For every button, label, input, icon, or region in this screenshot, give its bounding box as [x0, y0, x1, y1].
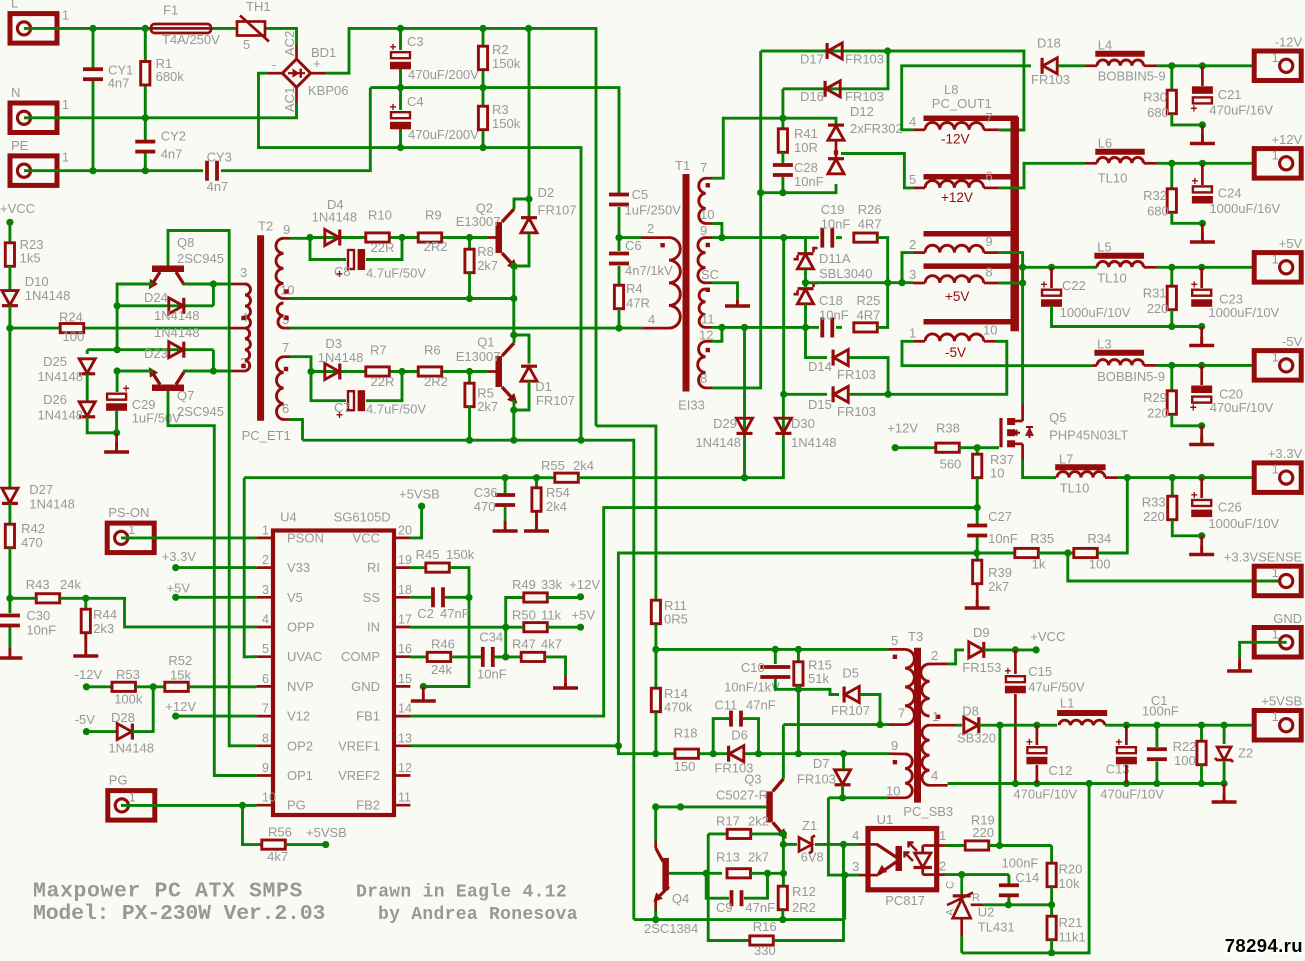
lead L3 e [1144, 364, 1157, 367]
label T1 pin 2 [647, 221, 654, 236]
svg-text:47uF/50V: 47uF/50V [1028, 680, 1085, 695]
junction C14 ref [1005, 901, 1012, 908]
wire N to AC1 [24, 103, 297, 118]
wire pin12 drop [712, 327, 722, 341]
label C4 value [408, 127, 479, 142]
label D18 value [1031, 72, 1070, 87]
svg-text:CY3: CY3 [207, 150, 232, 165]
label C5 [632, 187, 649, 202]
lead T3 pin10 [888, 796, 905, 799]
svg-text:2xFR302: 2xFR302 [850, 121, 903, 136]
svg-text:T2: T2 [258, 219, 273, 234]
label R55 [541, 458, 565, 473]
wire pin7 line [290, 357, 488, 372]
capacitor C13 [1115, 735, 1137, 764]
label TH1 [246, 0, 271, 14]
label C22 value [1060, 305, 1131, 320]
wire D25-D26 [86, 374, 89, 401]
svg-text:+5V: +5V [1279, 236, 1303, 251]
label L8 pin6 [985, 169, 992, 184]
resistor R31 [1167, 286, 1176, 310]
U4 pin 17 number [398, 613, 412, 627]
svg-text:1: 1 [1272, 710, 1279, 724]
label L6 [1098, 136, 1112, 151]
svg-text:C3: C3 [407, 34, 424, 49]
label +VCC [0, 201, 35, 216]
U4 pin 2 number [262, 553, 269, 567]
lead T2 pin4 [229, 327, 245, 330]
U4 pin 5 UVAC stub [257, 655, 273, 658]
label R43 value [60, 577, 81, 592]
U1 pin1 stub [937, 844, 945, 847]
svg-text:1: 1 [62, 8, 69, 22]
wire bottom rail [634, 918, 845, 921]
svg-text:2: 2 [909, 237, 916, 252]
svg-text:20: 20 [398, 523, 412, 537]
label D29 value [695, 435, 741, 450]
wire D7 top lead [842, 754, 845, 769]
wire R55 D30 [745, 394, 784, 477]
wire R50 west [506, 626, 524, 629]
wire C5 top [618, 88, 621, 192]
label Q5 type [1049, 428, 1128, 443]
svg-text:C30: C30 [26, 608, 50, 623]
svg-text:470uF/200V: 470uF/200V [408, 127, 479, 142]
label C20 [1219, 387, 1243, 402]
capacitor C28 [773, 163, 793, 177]
svg-text:COMP: COMP [341, 649, 380, 664]
connector L pin 1 [62, 8, 69, 22]
U4 pin 3 number [262, 583, 269, 597]
junction +5V C22 [1048, 264, 1055, 271]
thermistor TH1 [237, 16, 269, 42]
wire R5 bottom [468, 407, 471, 441]
svg-text:10nF/1kV: 10nF/1kV [724, 680, 780, 695]
resistor R38 [936, 443, 960, 452]
label L3 [1097, 337, 1111, 352]
svg-text:D7: D7 [813, 756, 830, 771]
connector N label [11, 85, 20, 100]
svg-text:10k: 10k [1059, 876, 1080, 891]
label D5 value [831, 703, 870, 718]
wire R32 bottom [1172, 213, 1203, 224]
wire R22 top lead [1200, 725, 1203, 741]
wire C18 line [806, 326, 820, 329]
svg-text:PG: PG [109, 773, 128, 788]
junction Q8 collector [210, 280, 217, 287]
label BD1 plus [313, 56, 321, 71]
capacitor C26 [1191, 488, 1213, 517]
label D30 [791, 416, 815, 431]
label L8 pin7 [985, 110, 992, 125]
wire C18-R25 [836, 326, 842, 329]
svg-text:1k: 1k [1032, 557, 1046, 572]
label L8 pin10 [983, 323, 997, 338]
inductor L4 [1097, 60, 1144, 66]
wire Q1 collector [513, 335, 516, 343]
wire C10 top lead [774, 649, 777, 664]
wire D23 line [87, 348, 213, 351]
junction R43 left [6, 595, 13, 602]
svg-text:24k: 24k [60, 577, 81, 592]
wire C7 right [366, 372, 402, 401]
lead C15 top [1014, 650, 1017, 674]
svg-text:FR103: FR103 [837, 367, 876, 382]
svg-text:R22: R22 [1173, 739, 1197, 754]
junction VREF1 riser [615, 742, 622, 749]
svg-text:SBL3040: SBL3040 [819, 266, 873, 281]
label C11 [714, 698, 737, 713]
svg-text:24k: 24k [431, 662, 452, 677]
svg-text:4: 4 [262, 613, 269, 627]
label R3 [492, 102, 509, 117]
svg-text:12: 12 [699, 328, 713, 343]
svg-text:A: A [945, 908, 957, 916]
node +12V R49 [577, 593, 584, 600]
lead L4 e [1144, 64, 1157, 67]
svg-text:R3: R3 [492, 102, 509, 117]
label Q4 [672, 891, 689, 906]
wire midpoint rail [290, 297, 514, 300]
svg-text:Model: PX-230W Ver.2.03: Model: PX-230W Ver.2.03 [33, 902, 325, 926]
wire fb bottom line [962, 784, 1089, 953]
diode D1 [521, 365, 537, 382]
connector L label [11, 0, 18, 11]
T2 polarity dot a [241, 316, 245, 320]
svg-text:1: 1 [62, 151, 69, 165]
svg-text:R56: R56 [268, 825, 292, 840]
wire pin3 T2 [213, 283, 232, 286]
label R56 value [267, 849, 288, 864]
label C26 [1218, 500, 1242, 515]
svg-text:14: 14 [398, 702, 412, 716]
wire to T3 pin9 [844, 752, 890, 755]
resistor R7 [366, 367, 390, 376]
transistor Q4 bar [662, 858, 669, 890]
transistor Q3 [766, 779, 790, 842]
junction C29 bottom [113, 429, 120, 436]
label R52 value [170, 668, 191, 683]
ground C23 [1189, 337, 1214, 346]
lead T1 pin11 [706, 326, 713, 329]
capacitor C19 [820, 228, 834, 248]
resistor R21 [1047, 916, 1056, 940]
svg-text:PC_OUT1: PC_OUT1 [932, 96, 992, 111]
wire R37 top [976, 448, 979, 454]
capacitor C10 [760, 665, 790, 679]
junction +5V pins23 [898, 279, 905, 286]
label R14 value [664, 700, 693, 715]
svg-text:C34: C34 [479, 630, 503, 645]
connector PG [108, 791, 155, 821]
wire D9 east [984, 648, 1036, 651]
label R38 value [940, 457, 962, 472]
wire R1 top [144, 28, 147, 61]
svg-text:1N4148: 1N4148 [154, 308, 200, 323]
label L8 [944, 82, 958, 97]
L8 bar w5 [924, 319, 1019, 325]
label R39 [988, 565, 1012, 580]
wire D27 to R42 [8, 503, 11, 524]
label Q1 type [456, 349, 501, 364]
capacitor C14 [999, 883, 1019, 897]
label C2 [417, 606, 434, 621]
label D2 value [538, 203, 577, 218]
wire +5V to V5 [176, 596, 257, 599]
label C10 value [724, 680, 780, 695]
junction rail R5 [466, 437, 473, 444]
label L3 type [1097, 369, 1165, 384]
resistor R50 [524, 623, 548, 632]
svg-text:10: 10 [886, 784, 900, 799]
wire jog 596 [596, 426, 656, 600]
junction D15 D14 [885, 391, 892, 398]
wire L8 pin6 out [999, 163, 1085, 188]
wire D10 to R24 line [8, 306, 11, 329]
wire SC [712, 283, 738, 300]
wire C5 bottom [618, 207, 621, 238]
connector GND pin 1 [1272, 627, 1279, 641]
junction +3.3 R34riser [1124, 474, 1131, 481]
wire C34 east [495, 655, 522, 658]
connector -12V pin 1 [1272, 51, 1279, 65]
inductor L3 bar [1094, 350, 1144, 356]
capacitor C15 [1004, 664, 1026, 693]
wire IN line [410, 626, 505, 629]
svg-text:C5027-R: C5027-R [716, 788, 768, 803]
wire pin2 T2 [213, 370, 232, 373]
svg-text:TL431: TL431 [978, 920, 1015, 935]
wire R52 to NVP [189, 685, 257, 688]
transformer T1 winding 9-SC [698, 238, 706, 283]
wire TH1 to AC2 [265, 28, 297, 45]
label T3 pin 4 [931, 768, 938, 783]
junction R17 Q3e [780, 830, 787, 837]
capacitor C9 [730, 890, 744, 906]
svg-text:R30: R30 [1143, 90, 1167, 105]
svg-text:+: + [1190, 101, 1197, 115]
svg-text:7: 7 [985, 110, 992, 125]
wire IN-C34 riser [504, 627, 507, 657]
label L1 [1060, 696, 1074, 711]
label D30 value [791, 435, 837, 450]
svg-text:100: 100 [1174, 753, 1196, 768]
svg-text:+: + [1191, 488, 1198, 502]
junction C20 bottom [1198, 422, 1205, 429]
svg-text:4R7: 4R7 [857, 308, 881, 323]
resistor R30 [1167, 90, 1176, 114]
junction 0V C13 [1123, 780, 1130, 787]
wire C19 line b [784, 236, 819, 239]
U1 pin1 number [939, 828, 946, 843]
label -5V winding [945, 345, 966, 360]
svg-text:FR107: FR107 [538, 203, 577, 218]
label R18 [674, 726, 698, 741]
label R30 value [1147, 105, 1169, 120]
junction 0V fb [1086, 780, 1093, 787]
lead T2 pin6 [284, 418, 291, 421]
U4 pin name FB1 [356, 709, 380, 724]
wire Z1 east [815, 843, 859, 846]
wire 0V rail [948, 782, 1225, 785]
junction Q1 collector [510, 331, 517, 338]
wire D16 west [781, 89, 784, 118]
ground C24 [1190, 233, 1215, 242]
lead T3 pin7 [889, 723, 905, 726]
svg-text:R42: R42 [21, 521, 45, 536]
lead C15 bottom [1014, 694, 1017, 784]
lead T2 pin3 [232, 283, 246, 286]
svg-text:470uF/200V: 470uF/200V [408, 67, 479, 82]
label Q4 type [644, 921, 698, 936]
wire +5V line [806, 281, 914, 284]
diode D7 [835, 770, 851, 787]
connector PE label [11, 138, 29, 153]
label C4 [407, 94, 424, 109]
U4 pin name UVAC [287, 649, 322, 664]
label C13 value [1100, 787, 1164, 802]
resistor R1 [141, 62, 150, 86]
label C36 value [474, 499, 496, 514]
label T2 pin 9 [283, 222, 290, 237]
label R2 [492, 42, 509, 57]
U1 pin4 number [852, 828, 859, 843]
ground C36 [493, 521, 518, 531]
junction VREF1 R35 [973, 549, 980, 556]
label R39 value [988, 579, 1009, 594]
lead C13 bottom [1125, 765, 1128, 784]
wire R38 to R37 [959, 446, 977, 449]
resistor R13 [727, 869, 751, 878]
svg-text:+5VSB: +5VSB [1261, 694, 1302, 709]
label R45 value [446, 547, 475, 562]
wire R49 west [506, 598, 524, 628]
U4 pin 5 number [262, 642, 269, 656]
transformer T3 winding 1-4 [922, 725, 930, 785]
svg-text:VREF2: VREF2 [338, 768, 380, 783]
svg-text:R21: R21 [1059, 915, 1083, 930]
node +5VSB U4 [418, 503, 425, 510]
wire gate wire [977, 446, 999, 449]
label U2 type [978, 920, 1015, 935]
lead T1 pin7 [706, 177, 713, 180]
diode D10 [2, 291, 18, 308]
wire pin6 loop [290, 420, 303, 441]
label R31 [1143, 286, 1167, 301]
svg-text:-12V: -12V [1275, 34, 1303, 49]
junction R13 Q3e [780, 870, 787, 877]
U4 pin 1 number [262, 523, 269, 537]
junction pin11 D29riser [741, 324, 748, 331]
label PC_OUT1 [932, 96, 992, 111]
junction D17-D16 [884, 47, 891, 54]
node -5V [83, 728, 90, 735]
resistor R37 [973, 454, 982, 478]
label T2 pin 10 [280, 283, 294, 298]
lead L8 pin10 [984, 340, 996, 343]
svg-text:100nF: 100nF [1002, 855, 1039, 870]
wire Z2 bottom [1223, 762, 1226, 784]
label R26 value [858, 217, 882, 232]
lead L4 w [1085, 64, 1097, 67]
junction R13 west [703, 870, 710, 877]
wire D12 mid to pin5 [841, 154, 913, 188]
svg-text:D5: D5 [842, 666, 859, 681]
label T1 pin 4 [648, 312, 655, 327]
label Q5 [1049, 410, 1066, 425]
U4 pin 8 OP2 stub [257, 744, 273, 747]
label D8 value [957, 731, 996, 746]
wire R11 bottom [654, 624, 657, 649]
wire Q3 collector [782, 725, 785, 779]
connector GND label [1273, 611, 1302, 626]
IC U4 SG6105D box [273, 531, 394, 816]
label R17 value [748, 814, 769, 829]
label +5VSB R56 [306, 825, 347, 840]
label C14 value [1002, 855, 1039, 870]
lead R47 gnd [564, 676, 567, 687]
svg-text:4n7/1kV: 4n7/1kV [625, 263, 673, 278]
T2 polarity dot b [241, 364, 245, 368]
wire C10 bottom [775, 679, 798, 689]
label C20 value [1210, 400, 1274, 415]
svg-text:OP1: OP1 [287, 768, 313, 783]
connector +3.3VSENSE [1254, 566, 1301, 596]
label R54 [546, 485, 570, 500]
fuse F1 [151, 24, 211, 33]
label C23 value [1208, 305, 1279, 320]
T1 polarity dot SC [706, 288, 710, 292]
ground C20 [1189, 436, 1214, 445]
wire C30 bottom [8, 627, 11, 648]
wire R13 line [669, 872, 722, 875]
transistor Q1 [496, 343, 522, 407]
U4 pin name COMP [341, 649, 380, 664]
junction midpoint R8 [466, 295, 473, 302]
junction L8 pin8 [1019, 279, 1026, 286]
wire D26 bottom [87, 417, 116, 433]
lead T2 pin2 [232, 370, 246, 373]
svg-text:-: - [272, 57, 276, 72]
label D24 value [154, 308, 200, 323]
label C29 [132, 397, 156, 412]
junction pin5line R11 [652, 646, 659, 653]
label D12 [850, 104, 874, 119]
junction R44 top [82, 595, 89, 602]
wire pin7line to D12 [783, 118, 836, 124]
svg-text:PC_ET1: PC_ET1 [242, 428, 291, 443]
svg-text:11: 11 [701, 312, 715, 327]
wire pin10 drop T3 [828, 798, 859, 875]
svg-text:R41: R41 [794, 126, 818, 141]
junction R5 top [466, 368, 473, 375]
junction pin8 D12line [757, 189, 764, 196]
U4 pin 14 FB1 stub [394, 715, 410, 718]
wire R2 top [482, 28, 485, 46]
junction L-R1 [142, 25, 149, 32]
label D4 [327, 197, 344, 212]
label R13 [716, 850, 740, 865]
label -12V winding [941, 132, 970, 147]
label D14 value [837, 367, 876, 382]
resistor R17 [727, 829, 751, 838]
diode D11A upper [794, 248, 818, 269]
U4 pin 14 number [398, 702, 412, 716]
label R16 value [754, 943, 776, 958]
svg-text:C14: C14 [1015, 870, 1039, 885]
wire R14 bottom [654, 712, 657, 754]
svg-text:3: 3 [240, 265, 247, 280]
